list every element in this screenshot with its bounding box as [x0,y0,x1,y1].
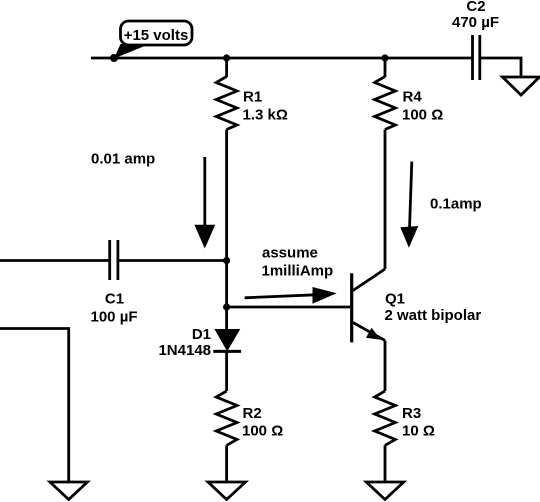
svg-text:R2: R2 [243,405,262,422]
wire R1 to C1 junction and on to base junction and diode [225,130,228,331]
current arrow 0.01 amp [203,157,206,228]
svg-text:+15 volts: +15 volts [124,27,189,44]
wire rail to R1 [225,58,228,77]
svg-text:1N4148: 1N4148 [158,342,211,359]
current arrow assume 1milliAmp [245,295,315,298]
node junction dot C1/R1 column [223,257,230,264]
svg-text:10 Ω: 10 Ω [402,422,435,439]
node junction dot rail/R1 [223,54,230,61]
svg-text:100 Ω: 100 Ω [402,107,443,124]
ground for R3 [366,482,403,500]
node junction dot rail/R4 [381,54,388,61]
ground for C2 [503,77,540,95]
wire Q1 emitter [353,323,385,341]
ground for R2 [208,482,246,500]
callout box +15 volts [121,21,193,45]
callout tail for +15 volts label [114,44,150,59]
svg-text:R3: R3 [402,405,421,422]
svg-text:assume: assume [262,245,318,262]
capacitor C1 [108,240,111,280]
transistor Q1 [350,273,353,342]
svg-text:0.01 amp: 0.01 amp [91,151,155,168]
wire rail to R4 [384,58,387,77]
current arrow 0.1amp [410,162,412,230]
svg-text:C2: C2 [466,0,485,15]
wire emitter to R3 [384,341,387,392]
wire R4 to collector [384,130,387,270]
resistor R2 [216,391,237,445]
wire Q1 collector [353,269,385,291]
svg-text:1milliAmp: 1milliAmp [262,263,334,280]
resistor R4 [375,77,396,130]
wire left stub to ground [0,329,69,483]
wire C2 to ground [480,58,521,77]
wire D1 to R2 [225,351,228,391]
svg-text:R1: R1 [243,88,262,105]
wire C1 to R1 column [119,259,227,262]
svg-text:470 µF: 470 µF [452,14,499,31]
wire top supply rail [91,57,472,60]
diode D1 [214,329,240,351]
svg-text:R4: R4 [403,88,423,105]
svg-text:100 µF: 100 µF [91,309,138,326]
svg-text:D1: D1 [192,326,211,343]
wire R3 to ground [384,445,387,482]
svg-text:0.1amp: 0.1amp [430,196,482,213]
svg-text:Q1: Q1 [385,291,405,308]
svg-text:C1: C1 [105,291,124,308]
wire input to C1 [0,259,109,262]
node supply tap dot [110,54,118,62]
resistor R1 [216,77,237,130]
resistor R3 [375,391,396,445]
svg-text:2 watt bipolar: 2 watt bipolar [385,307,482,324]
svg-text:100 Ω: 100 Ω [242,422,283,439]
emitter arrowhead of Q1 [366,328,381,340]
wire base of Q1 [227,306,352,309]
svg-text:1.3 kΩ: 1.3 kΩ [243,107,288,124]
capacitor C2 [471,35,474,80]
node junction dot base wire [223,303,230,310]
ground left stub [50,482,87,500]
wire R2 to ground [225,445,228,482]
